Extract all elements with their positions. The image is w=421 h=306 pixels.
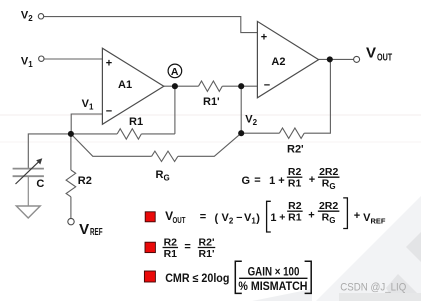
svg-text:C: C <box>36 178 44 190</box>
svg-text:R1': R1' <box>199 248 215 260</box>
capacitor C (variable) <box>13 169 44 177</box>
svg-text:+: + <box>261 31 267 43</box>
svg-text:1 +: 1 + <box>269 175 285 187</box>
svg-text:=: = <box>200 211 206 223</box>
A2 inverting node <box>238 83 244 89</box>
svg-text:R1': R1' <box>203 96 220 108</box>
wire node A down to R1 <box>174 86 176 134</box>
svg-text:R2: R2 <box>288 200 302 212</box>
wire R2 to VREF terminal <box>70 197 72 219</box>
resistor R2 <box>66 170 76 197</box>
svg-text:A2: A2 <box>271 56 285 68</box>
svg-text:GAIN × 100: GAIN × 100 <box>248 266 300 278</box>
svg-text:RG: RG <box>156 169 170 183</box>
svg-text:CMR ≤ 20log: CMR ≤ 20log <box>165 273 229 285</box>
svg-text:OUT: OUT <box>173 216 186 225</box>
svg-text:R1: R1 <box>288 212 302 224</box>
svg-text:VREF: VREF <box>363 212 386 226</box>
faint gridline 2 <box>0 141 421 143</box>
wire V1 input to A1 + <box>44 58 103 60</box>
terminal V2 <box>38 14 43 19</box>
wire R1' to A2 inverting input <box>222 85 257 87</box>
svg-text:2R2: 2R2 <box>319 200 338 212</box>
svg-text:R2: R2 <box>288 166 302 178</box>
watermark corner triangle <box>316 196 421 301</box>
red bullet 2 <box>145 242 155 252</box>
node A dot <box>172 83 178 89</box>
wire A1 inverting input to junction <box>71 114 102 134</box>
output node <box>327 56 333 62</box>
resistor R1' <box>199 81 223 91</box>
wire junction to capacitor <box>28 134 71 169</box>
svg-text:V: V <box>366 45 376 62</box>
svg-text:A1: A1 <box>118 79 132 91</box>
node V2 <box>238 130 244 136</box>
svg-text:+: + <box>309 174 315 186</box>
bracket left CMR <box>235 261 242 293</box>
svg-text:+: + <box>308 210 314 222</box>
wire A2 inv node down to V2 node <box>240 86 242 133</box>
svg-text:V: V <box>79 221 89 238</box>
svg-text:): ) <box>256 212 260 224</box>
svg-text:G: G <box>242 175 251 187</box>
svg-text:R1: R1 <box>288 178 302 190</box>
ground <box>16 206 40 218</box>
wire RG right diagonal to V2 node <box>178 133 241 156</box>
wire A1 output to R1' <box>164 85 199 87</box>
svg-text:(: ( <box>215 212 219 224</box>
wire R1 to node A drop <box>141 133 175 135</box>
svg-text:−: − <box>264 79 270 91</box>
svg-text:V1: V1 <box>21 55 33 69</box>
watermark bottom strip <box>339 293 421 301</box>
svg-text:=: = <box>184 241 190 253</box>
wire R2' up to output <box>304 59 330 133</box>
svg-text:OUT: OUT <box>377 52 392 63</box>
svg-text:+: + <box>279 211 285 223</box>
capacitor arrow <box>16 160 41 184</box>
svg-text:R2: R2 <box>78 175 92 187</box>
wire junction to R1 <box>71 133 117 135</box>
svg-text:−: − <box>106 106 112 118</box>
terminal V1 <box>39 56 44 61</box>
svg-text:V1: V1 <box>82 98 94 112</box>
svg-text:2R2: 2R2 <box>319 166 338 178</box>
wire A2 output to VOUT terminal <box>319 58 354 60</box>
terminal VREF <box>68 218 74 224</box>
resistor R1 <box>117 129 141 139</box>
terminal VOUT <box>354 56 360 62</box>
watermark small triangle <box>252 289 312 301</box>
svg-text:R1: R1 <box>129 116 143 128</box>
svg-text:RG: RG <box>322 212 336 226</box>
junction node <box>68 131 74 137</box>
svg-text:+: + <box>354 210 360 222</box>
bracket right CMR <box>305 261 312 293</box>
red bullet 1 <box>145 212 155 222</box>
svg-text:+: + <box>106 58 112 70</box>
node A circled label <box>168 64 182 78</box>
resistor R2' <box>279 128 304 138</box>
op-amp A2 <box>257 21 318 97</box>
watermark chevron 2 <box>386 274 421 301</box>
red bullet 3 <box>144 271 155 282</box>
svg-text:CSDN @J_LIQ: CSDN @J_LIQ <box>340 282 406 294</box>
wire junction down to R2 <box>70 134 72 170</box>
svg-text:A: A <box>171 66 179 78</box>
op-amp A1 <box>102 48 163 124</box>
faint gridline 1 <box>0 114 421 116</box>
svg-text:R2': R2' <box>199 236 215 248</box>
svg-text:R2: R2 <box>164 236 178 248</box>
watermark chevron 1 <box>406 232 421 262</box>
bracket right row1 <box>343 198 347 229</box>
svg-text:% MISMATCH: % MISMATCH <box>238 281 307 293</box>
svg-text:R1: R1 <box>164 248 178 260</box>
svg-text:R2': R2' <box>287 144 304 156</box>
svg-text:REF: REF <box>90 227 103 238</box>
svg-text:V2: V2 <box>21 10 33 24</box>
svg-text:=: = <box>254 174 260 186</box>
wire V2 input to A2 + <box>44 17 258 33</box>
watermark column <box>388 199 421 301</box>
svg-text:RG: RG <box>322 178 336 192</box>
svg-text:–: – <box>236 211 242 223</box>
bracket left row1 <box>267 201 271 232</box>
svg-text:1: 1 <box>270 212 276 224</box>
wire V2 node to R2' <box>241 132 279 134</box>
wire RG left diagonal <box>71 134 152 156</box>
resistor RG <box>152 151 178 161</box>
svg-text:V2: V2 <box>222 212 234 226</box>
svg-text:V1: V1 <box>244 212 256 226</box>
